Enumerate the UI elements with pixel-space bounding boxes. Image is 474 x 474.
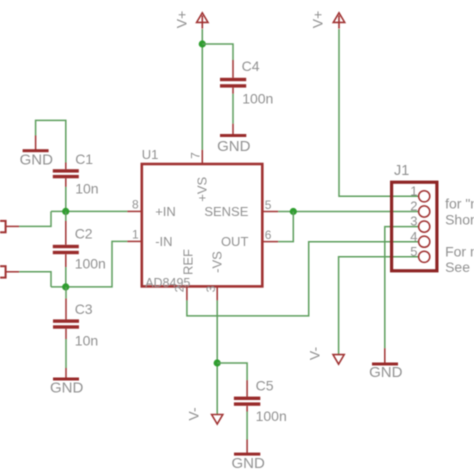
wire V+ down to U1 pin 7 bbox=[201, 29, 203, 150]
svg-text:100n: 100n bbox=[75, 255, 106, 271]
wire node B to U1 pin 1 bbox=[51, 241, 127, 287]
connector J1 bbox=[392, 182, 437, 271]
wire C2 bottom to node B bbox=[65, 267, 67, 287]
svg-text:C1: C1 bbox=[75, 151, 93, 167]
svg-text:GND: GND bbox=[20, 152, 54, 169]
op-amp U1 AD8495 thermocouple amplifier box bbox=[142, 164, 262, 286]
U1 pin 2 (REF) stub bbox=[186, 286, 188, 300]
ground below J1 bbox=[372, 348, 398, 365]
wire pad P2 to node B bbox=[19, 272, 51, 287]
U1 pin 1 (-IN) stub bbox=[127, 240, 141, 242]
ground symbol (top left, above C1) bbox=[23, 136, 49, 153]
wire SENSE to node C bbox=[278, 211, 419, 213]
wire pad P1 to node A bbox=[19, 211, 51, 226]
svg-text:3: 3 bbox=[204, 285, 218, 292]
svg-text:10n: 10n bbox=[75, 332, 98, 348]
svg-text:V-: V- bbox=[306, 347, 322, 361]
supply symbol V- (left) bbox=[212, 415, 223, 425]
svg-text:J1: J1 bbox=[394, 163, 409, 179]
svg-text:1: 1 bbox=[410, 183, 417, 198]
U1 pin 5 (SENSE) stub bbox=[262, 211, 278, 213]
wire node A to U1 pin 8 bbox=[51, 210, 127, 212]
svg-text:1: 1 bbox=[132, 228, 139, 242]
wire C3 bottom to GND bbox=[65, 339, 67, 368]
wire V+ junction to C4 bbox=[202, 44, 233, 60]
svg-text:GND: GND bbox=[217, 138, 251, 155]
J1 pin 4 circle bbox=[419, 236, 430, 247]
wire C4 to GND bbox=[232, 94, 234, 124]
U1 pin 6 (OUT) stub bbox=[262, 241, 278, 243]
wire J1 pin 4 to REF pin 2 bbox=[187, 242, 419, 316]
junction node D bbox=[214, 359, 221, 366]
ground below C3 bbox=[53, 368, 79, 381]
wire C5 to GND bbox=[246, 412, 248, 440]
junction node B bbox=[62, 283, 69, 290]
J1 pin 5 circle bbox=[419, 251, 430, 262]
svg-text:+VS: +VS bbox=[194, 177, 209, 202]
svg-text:4: 4 bbox=[410, 229, 417, 244]
capacitor C3 bbox=[53, 298, 79, 339]
U1 pin 7 (+VS) stub bbox=[201, 150, 203, 164]
svg-text:For more: For more bbox=[445, 244, 474, 260]
svg-text:C3: C3 bbox=[75, 301, 93, 317]
supply symbol V- (right) bbox=[333, 355, 344, 365]
svg-text:for "norm: for "norm bbox=[445, 196, 474, 212]
svg-text:OUT: OUT bbox=[221, 234, 249, 249]
svg-text:8: 8 bbox=[132, 198, 139, 212]
J1 pin 2 circle bbox=[419, 206, 430, 217]
svg-text:SENSE: SENSE bbox=[204, 204, 248, 219]
wire C1 to node A bbox=[65, 187, 67, 212]
wire C3 top to node B bbox=[65, 287, 67, 299]
wire C2 top to node A bbox=[65, 211, 67, 221]
wire node D to C5 bbox=[217, 363, 247, 380]
svg-text:3: 3 bbox=[410, 214, 417, 229]
svg-text:+IN: +IN bbox=[155, 204, 176, 219]
svg-text:6: 6 bbox=[265, 228, 272, 242]
capacitor C5 bbox=[234, 380, 260, 411]
svg-text:2: 2 bbox=[173, 285, 187, 292]
svg-text:10n: 10n bbox=[75, 181, 98, 197]
svg-text:-IN: -IN bbox=[155, 234, 172, 249]
svg-text:V-: V- bbox=[186, 407, 202, 421]
svg-text:5: 5 bbox=[265, 198, 272, 212]
U1 pin 8 (+IN) stub bbox=[127, 210, 141, 212]
connector pad P1 (left edge) bbox=[0, 221, 19, 232]
svg-text:V+: V+ bbox=[174, 11, 190, 29]
wire J1 pin 5 to V- bbox=[339, 257, 419, 354]
capacitor C2 bbox=[53, 221, 79, 267]
svg-text:GND: GND bbox=[369, 364, 403, 381]
svg-text:100n: 100n bbox=[256, 408, 287, 424]
wire GND to C1 bbox=[36, 120, 66, 162]
svg-text:GND: GND bbox=[232, 455, 266, 472]
svg-text:5: 5 bbox=[410, 244, 417, 259]
svg-text:7: 7 bbox=[189, 152, 203, 159]
U1 pin 3 (-VS) stub bbox=[216, 286, 218, 300]
J1 pin 3 circle bbox=[419, 221, 430, 232]
svg-text:U1: U1 bbox=[142, 147, 159, 162]
junction node A bbox=[62, 208, 69, 215]
wire J1 pin 3 to GND bbox=[385, 227, 419, 349]
capacitor C4 bbox=[220, 60, 246, 94]
svg-text:Short RE: Short RE bbox=[445, 211, 474, 227]
wire U1 pin 3 (-VS) down to node D bbox=[216, 300, 218, 414]
svg-text:100n: 100n bbox=[242, 91, 273, 107]
svg-text:-VS: -VS bbox=[209, 251, 224, 273]
wire V+ (right) to J1 pin 1 bbox=[339, 29, 419, 196]
svg-text:REF: REF bbox=[181, 249, 196, 275]
junction node C bbox=[290, 208, 297, 215]
svg-text:See data: See data bbox=[445, 259, 474, 275]
ground below C5 bbox=[234, 440, 260, 456]
svg-text:C5: C5 bbox=[256, 378, 274, 394]
svg-text:C4: C4 bbox=[242, 58, 260, 74]
wire node C to OUT pin 6 bbox=[278, 212, 293, 242]
capacitor C1 bbox=[53, 163, 79, 187]
junction node on V+ net bbox=[199, 40, 206, 47]
ground below C4 bbox=[220, 124, 246, 137]
connector pad P2 (left edge) bbox=[0, 266, 19, 277]
svg-text:C2: C2 bbox=[75, 226, 93, 242]
supply symbol V+ (right) bbox=[333, 13, 344, 29]
svg-text:GND: GND bbox=[50, 380, 84, 397]
J1 pin 1 circle bbox=[419, 191, 430, 202]
svg-text:V+: V+ bbox=[310, 11, 326, 29]
supply symbol V+ (left) bbox=[197, 13, 208, 29]
svg-text:2: 2 bbox=[410, 199, 417, 214]
